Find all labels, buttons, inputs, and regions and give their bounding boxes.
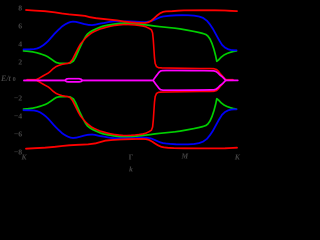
magenta diamond top edge [153, 71, 238, 81]
magenta flat band mid segment [82, 79, 153, 81]
magenta lens top edge [65, 79, 82, 81]
red band 2 upper (dives to flat region) [27, 25, 233, 80]
magenta diamond bottom edge [153, 80, 226, 90]
svg-text:K: K [20, 152, 27, 161]
magenta lens bottom edge [65, 81, 82, 82]
blue band upper [24, 15, 237, 50]
svg-text:6: 6 [18, 22, 22, 31]
green band lower (mirror) [24, 97, 237, 137]
svg-text:Γ: Γ [129, 152, 134, 161]
svg-text:0: 0 [13, 76, 16, 83]
svg-text:−4: −4 [14, 112, 22, 121]
svg-text:K: K [234, 152, 241, 161]
green band upper (K-Gamma-M-K) [24, 23, 237, 63]
svg-text:E/t: E/t [0, 74, 12, 83]
red band lower (bottom) [26, 139, 237, 149]
svg-text:8: 8 [18, 4, 22, 13]
svg-text:M: M [180, 151, 188, 160]
magenta flat band left segment [24, 79, 65, 81]
svg-text:k: k [129, 165, 133, 174]
blue band lower (mirror) [24, 109, 237, 144]
svg-text:2: 2 [18, 58, 22, 67]
red band 2 lower (mirror) [27, 80, 233, 135]
svg-text:4: 4 [18, 40, 22, 49]
band structure chart E/t0 vs k, path K-Gamma-M-K [0, 0, 250, 175]
svg-text:−2: −2 [14, 94, 22, 103]
svg-text:−6: −6 [14, 130, 22, 139]
red band upper (top) [26, 10, 237, 23]
